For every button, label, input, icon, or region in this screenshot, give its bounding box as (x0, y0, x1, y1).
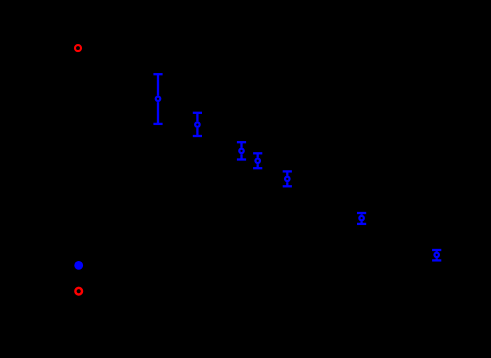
blue error-bar point 3 (237, 142, 246, 159)
blue error-bar point 4 (253, 153, 262, 168)
blue error-bar point 6 (357, 213, 366, 224)
blue error-bar point 5 (283, 171, 292, 186)
legend marker: blue filled circle (74, 261, 83, 270)
legend marker: red open circle (75, 288, 82, 295)
blue error-bar point 2 (193, 113, 202, 136)
red open-circle marker (upper left data point) (75, 45, 81, 51)
blue error-bar point 7 (432, 250, 441, 260)
blue error-bar point 1 (153, 74, 162, 124)
